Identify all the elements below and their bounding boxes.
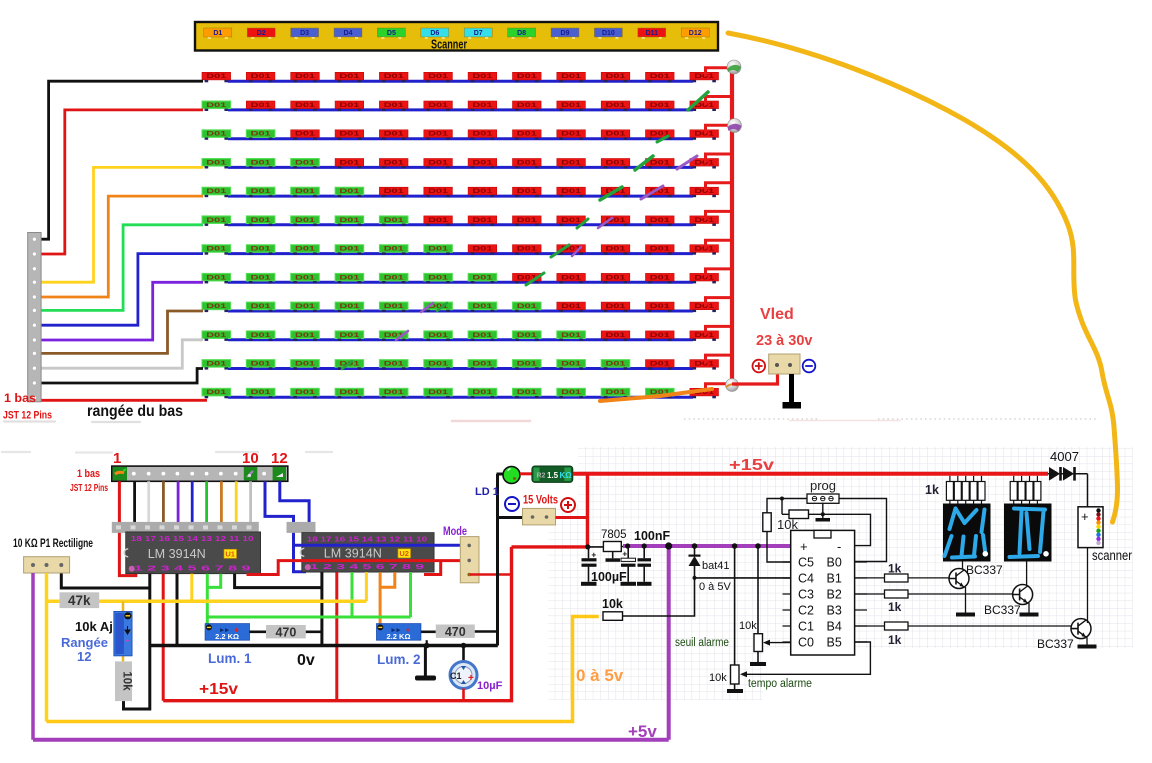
- resistor 470 (2): [436, 625, 475, 638]
- svg-text:10k: 10k: [739, 620, 757, 632]
- wire P1 pin1 +5v (purple): [31, 573, 35, 740]
- svg-text:D8: D8: [517, 30, 526, 37]
- svg-text:Vled: Vled: [760, 306, 794, 323]
- svg-text:1: 1: [113, 450, 121, 467]
- U2 socket strip: [287, 522, 316, 533]
- svg-text:D4: D4: [344, 30, 353, 37]
- resistor 10k (vertical): [115, 661, 132, 701]
- wire bat41 junction to C4: [695, 577, 791, 579]
- svg-text:D1: D1: [213, 30, 222, 37]
- scanner diode D11: [638, 28, 666, 39]
- wire row 9 blue rail: [228, 310, 693, 313]
- wire U1 pin2 to 0v: [148, 574, 151, 646]
- ground (Vled): [789, 374, 794, 402]
- wire U2 pin9 to Mode (red): [424, 561, 441, 575]
- potentiometer 10k Aj: [114, 612, 132, 656]
- wire U2 pin3 +15v: [335, 572, 338, 701]
- svg-text:100nF: 100nF: [634, 529, 670, 543]
- wire U1 pin8 to U2 pin2: [235, 574, 322, 588]
- svg-text:23 à 30v: 23 à 30v: [756, 333, 812, 349]
- wire row 2 from JST pin 2: [41, 110, 203, 254]
- svg-text:R2: R2: [537, 473, 546, 480]
- svg-text:D3: D3: [300, 30, 309, 37]
- LED row 9 (D901-D912): [202, 302, 719, 312]
- LED row 1 (D101-D112): [202, 72, 719, 82]
- svg-text:C2: C2: [798, 604, 814, 618]
- wire JST pin12 to U2 pin18 (blue): [280, 481, 309, 529]
- JST 12 pin connector (matrix left): [28, 233, 41, 402]
- stray wire marks on matrix: [342, 92, 708, 369]
- wire 10uF to 0v: [462, 646, 465, 662]
- wire row 4 blue rail: [228, 166, 693, 169]
- svg-text:Mode: Mode: [443, 524, 467, 538]
- wires JST to U1 socket: [135, 481, 251, 522]
- JST 12 pin connector (bottom circuit): [112, 466, 288, 481]
- op-amp U2 (LM3914N): [300, 533, 434, 573]
- capacitor C1 10uF: [450, 662, 477, 689]
- wire U1 pin6-7 ref (green): [207, 574, 220, 624]
- svg-text:18 17 16 15 14 13 12 11 10: 18 17 16 15 14 13 12 11 10: [307, 535, 427, 544]
- svg-text:BC337: BC337: [1037, 637, 1074, 651]
- svg-text:1 2 3 4 5 6 7 8 9: 1 2 3 4 5 6 7 8 9: [134, 564, 251, 573]
- LED row 5 (D501-D512): [202, 187, 719, 197]
- svg-text:10 KΩ P1 Rectiligne: 10 KΩ P1 Rectiligne: [13, 538, 93, 550]
- wire Q2 emitter + ground: [1028, 603, 1030, 613]
- LED row 8 (D801-D812): [202, 273, 719, 283]
- wire U2 pin8 (green): [409, 572, 412, 617]
- wire scanner link (yellow curve): [728, 33, 1118, 522]
- svg-text:+: +: [592, 551, 597, 560]
- wire U2 pin2 to 0v: [320, 572, 323, 645]
- resistor 10k (0-5v): [603, 612, 623, 621]
- svg-text:C1: C1: [798, 620, 814, 634]
- svg-text:C0: C0: [798, 636, 814, 650]
- svg-text:D6: D6: [430, 30, 439, 37]
- wire row 12 to Vled bus: [706, 384, 733, 393]
- svg-text:7805: 7805: [601, 529, 627, 541]
- svg-text:1 bas: 1 bas: [4, 391, 36, 405]
- IC microcontroller: [783, 530, 868, 655]
- svg-text:D2: D2: [257, 30, 266, 37]
- svg-text:prog: prog: [810, 478, 836, 493]
- wire row 6 to Vled bus: [706, 211, 733, 220]
- scanner diode D2: [247, 28, 275, 39]
- svg-text:D10: D10: [602, 30, 615, 37]
- svg-text:2.2 KΩ: 2.2 KΩ: [387, 632, 411, 641]
- wire 10uF to +15v: [462, 689, 465, 701]
- LED LD1: [503, 467, 520, 484]
- svg-text:D7: D7: [474, 30, 483, 37]
- wire 0 a 5v (yellow): [47, 617, 599, 722]
- resistor network 1k (display 2): [1010, 476, 1041, 504]
- wire LD1 to R2: [520, 472, 532, 475]
- 7-segment display 2: [1004, 504, 1052, 562]
- wire 10k pullup to C5: [767, 532, 791, 563]
- Vled bus wire: [730, 64, 734, 384]
- wire row 12 from JST pin 12: [41, 399, 207, 402]
- svg-text:JST 12 Pins: JST 12 Pins: [70, 482, 108, 494]
- minus terminal symbol: [803, 360, 816, 373]
- 7-segment display 1: [943, 504, 991, 562]
- LED row 10 (D1001-D1012): [202, 331, 719, 341]
- svg-text:+: +: [1081, 509, 1089, 524]
- svg-text:B5: B5: [827, 636, 842, 650]
- svg-text:D9: D9: [561, 30, 570, 37]
- wire U1 pin5 signal (yellow): [190, 574, 193, 602]
- svg-text:1k: 1k: [888, 633, 902, 647]
- orange stray wire row 12: [600, 389, 712, 401]
- resistor 1k (B1): [855, 577, 950, 579]
- connector 15 Volts: [523, 508, 556, 525]
- wire Mode pin3 to +15v: [470, 573, 512, 576]
- wire row 8 to Vled bus: [706, 269, 733, 278]
- svg-text:U1: U1: [225, 550, 235, 559]
- ground (prog): [822, 503, 824, 518]
- svg-text:B3: B3: [827, 604, 842, 618]
- svg-text:+15v: +15v: [199, 681, 238, 698]
- wire +15v bottom rail: [163, 547, 511, 701]
- connector prog: [807, 494, 839, 503]
- svg-text:U2: U2: [399, 549, 409, 558]
- svg-text:C3: C3: [798, 588, 814, 602]
- svg-text:B4: B4: [827, 620, 842, 634]
- wire +5v drop and rail (purple): [33, 546, 669, 740]
- op-amp U1 (LM3914N): [124, 532, 260, 574]
- svg-text:1 bas: 1 bas: [77, 468, 100, 480]
- wire P1 pin2 wiper (yellow): [45, 573, 49, 722]
- LED row 7 (D701-D712): [202, 245, 719, 255]
- wire prog right to B0: [839, 499, 887, 562]
- transistor Q2 BC337: [1013, 585, 1033, 605]
- scanner diode D8: [508, 28, 536, 39]
- wire row 2 blue rail: [228, 108, 693, 111]
- scanner diode D4: [334, 28, 362, 39]
- connector P1: [24, 557, 70, 573]
- wire U2 pin6-7 (orange): [380, 572, 395, 624]
- svg-text:0v: 0v: [297, 652, 315, 669]
- svg-text:+: +: [468, 673, 474, 684]
- wire Q1 collector: [962, 554, 964, 570]
- svg-text:LM 3914N: LM 3914N: [324, 545, 382, 560]
- svg-text:+5v: +5v: [628, 722, 657, 741]
- wire plus to +15v vertical: [556, 516, 589, 519]
- svg-text:D11: D11: [646, 30, 659, 37]
- wire 10k to bat41/C4: [623, 578, 695, 616]
- svg-text:1k: 1k: [888, 562, 902, 576]
- junction ball row 1: [727, 60, 741, 74]
- svg-text:10µF: 10µF: [477, 680, 503, 692]
- resistor 1k (B2): [855, 593, 1013, 595]
- wire row 7 to Vled bus: [706, 240, 733, 249]
- LED row 6 (D601-D612): [202, 216, 719, 226]
- svg-text:15 Volts: 15 Volts: [523, 493, 558, 507]
- wire row 11 blue rail: [228, 367, 693, 370]
- wire U1 pin9 to Mode (red): [247, 561, 461, 575]
- svg-text:Lum. 2: Lum. 2: [377, 652, 421, 667]
- svg-text:B2: B2: [827, 588, 842, 602]
- resistor 10k pullup (vertical): [763, 513, 771, 532]
- svg-text:10k: 10k: [121, 671, 133, 691]
- potentiometer 10k seuil: [754, 634, 763, 652]
- svg-text:0 à 5v: 0 à 5v: [576, 666, 624, 685]
- connector Mode: [460, 537, 479, 583]
- resistor R2 1.5K: [532, 466, 573, 482]
- svg-text:+: +: [623, 550, 628, 559]
- wire row 8 blue rail: [228, 281, 693, 284]
- LED row 11 (D1101-D1112): [202, 360, 719, 370]
- wire seuil pot from +5v: [757, 546, 759, 634]
- grid paper background: [548, 447, 1133, 700]
- svg-text:scanner: scanner: [1092, 548, 1132, 563]
- plus symbol (15V): [561, 498, 575, 512]
- svg-text:+: +: [125, 636, 130, 645]
- svg-text:D12: D12: [689, 30, 702, 37]
- capacitor 100nF: [637, 546, 652, 586]
- wire 2.2K-1 to 470-1: [250, 630, 267, 633]
- wire row 6 from JST pin 6: [41, 225, 203, 311]
- wire 2.2K-2 wiper to 0v: [426, 640, 428, 645]
- potentiometer 10k tempo: [731, 665, 740, 684]
- resistor 47k: [60, 592, 100, 608]
- wire 470-1 to U2 pin2 line: [306, 630, 322, 633]
- LED row 12 (D1201-D1212): [202, 388, 719, 398]
- capacitor 100uF output: [621, 546, 637, 586]
- svg-text:10k Aj: 10k Aj: [75, 619, 113, 634]
- svg-text:B0: B0: [827, 556, 842, 570]
- svg-text:C4: C4: [798, 572, 814, 586]
- U1 socket strip: [112, 522, 259, 533]
- wire U2 pin4 (green): [351, 572, 354, 617]
- wire row 11 to Vled bus: [706, 355, 733, 364]
- svg-text:2.2 KΩ: 2.2 KΩ: [215, 632, 239, 641]
- potentiometer 2.2K (Lum.2): [377, 624, 421, 641]
- wire row 10 to Vled bus: [706, 326, 733, 335]
- wire Q3 collector from scanner: [1087, 548, 1089, 623]
- scanner diode D3: [291, 28, 319, 39]
- wire row 3 to Vled bus: [706, 125, 733, 134]
- wire 10k bottom to 0v: [124, 646, 150, 710]
- svg-text:KΩ: KΩ: [560, 471, 573, 480]
- wire row 6 blue rail: [228, 223, 693, 226]
- plus terminal symbol: [753, 360, 766, 373]
- wire +15v vertical drop: [586, 474, 589, 547]
- wire row 9 to Vled bus: [706, 298, 733, 307]
- wire +15v to bottom rail: [512, 545, 588, 548]
- connector scanner: [1078, 507, 1103, 548]
- ground (0v bus): [424, 646, 427, 676]
- wire prog left net: [767, 499, 807, 515]
- wire JST pin11 to U2 pin1 (blue): [265, 481, 306, 572]
- svg-text:100µF: 100µF: [591, 570, 627, 584]
- transistor Q1 BC337: [949, 569, 969, 589]
- wire U1 pin4 to 0v: [176, 574, 179, 646]
- wire U1 pin2 to P1 pin3: [61, 573, 150, 588]
- wire row 5 from JST pin 5: [41, 196, 203, 297]
- svg-text:1k: 1k: [925, 483, 939, 497]
- faint smudge marks: [2, 421, 900, 453]
- diode bat41: [689, 546, 701, 578]
- svg-text:10k: 10k: [602, 597, 623, 611]
- svg-text:Lum. 1: Lum. 1: [208, 651, 252, 666]
- svg-text:C1: C1: [450, 671, 462, 681]
- wire row 9 from JST pin 9: [41, 311, 203, 353]
- wire green bus pins6-8: [207, 616, 410, 619]
- svg-text:12: 12: [77, 649, 91, 664]
- svg-text:1k: 1k: [888, 600, 902, 614]
- wire minus to connector: [498, 516, 523, 519]
- svg-text:rangée du bas: rangée du bas: [87, 403, 183, 420]
- wire row 1 from JST pin 1: [41, 81, 203, 239]
- wire +5v main (purple): [623, 544, 791, 548]
- wire +15v top rail: [573, 472, 1048, 476]
- wire Vled connector to bus: [732, 374, 778, 384]
- junction ball row 3: [728, 119, 742, 133]
- wire C0 to seuil wiper (arrow): [765, 642, 791, 644]
- resistor 10k (horizontal, prog): [789, 510, 809, 519]
- wire row 3 blue rail: [228, 137, 693, 140]
- scanner diode D10: [594, 28, 622, 39]
- svg-text:1.5: 1.5: [547, 471, 559, 480]
- resistor 470 (1): [266, 625, 306, 638]
- svg-text:470: 470: [445, 625, 466, 639]
- svg-text:10k: 10k: [709, 672, 727, 684]
- svg-text:470: 470: [275, 625, 296, 639]
- svg-text:1 2 3 4 5 6 7 8 9: 1 2 3 4 5 6 7 8 9: [310, 562, 424, 571]
- svg-text:tempo alarme: tempo alarme: [748, 678, 812, 690]
- wire 470-2 to LD1 line: [475, 630, 498, 633]
- svg-text:18 17 16 15 14 13 12 11 10: 18 17 16 15 14 13 12 11 10: [131, 534, 254, 543]
- resistor network 1k (display 1): [946, 476, 985, 504]
- potentiometer 2.2K (Lum.1): [205, 624, 249, 641]
- LED row 2 (D201-D212): [202, 101, 719, 111]
- wire JST pin1 to U1 pin1 (red): [119, 481, 135, 575]
- transistor Q3 BC337: [1071, 619, 1091, 639]
- svg-text:bat41: bat41: [702, 560, 730, 572]
- wire row 4 to Vled bus: [706, 154, 733, 163]
- LED row 3 (D301-D312): [202, 130, 719, 140]
- wire row 7 from JST pin 7: [41, 254, 203, 326]
- svg-text:JST 12 Pins: JST 12 Pins: [3, 410, 52, 422]
- wire row 10 from JST pin 10: [41, 340, 203, 368]
- wire 2.2K-2 to 470-2: [421, 630, 436, 633]
- wire row 5 blue rail: [228, 195, 693, 198]
- wire row 12 blue rail: [228, 396, 693, 399]
- wire B5 to tempo wiper: [743, 642, 870, 674]
- svg-text:Rangée: Rangée: [61, 635, 108, 650]
- svg-text:12: 12: [271, 450, 288, 467]
- wire tempo pot from +5v: [734, 546, 736, 665]
- scanner diode D5: [377, 28, 405, 39]
- scanner diode D1: [204, 28, 232, 39]
- svg-text:C5: C5: [798, 556, 814, 570]
- capacitor 100uF input: [581, 547, 597, 586]
- svg-text:Scanner: Scanner: [431, 38, 467, 52]
- Vled connector: [769, 354, 800, 374]
- svg-text:47k: 47k: [68, 593, 91, 608]
- dotted separator line: [684, 418, 1098, 420]
- scanner diode D12: [681, 28, 709, 39]
- diodes 4007: [1048, 467, 1088, 507]
- svg-text:B1: B1: [827, 572, 842, 586]
- wire row 5 to Vled bus: [706, 183, 733, 192]
- wire U2 pin5 signal (yellow): [365, 572, 368, 601]
- wire 47k line (yellow): [47, 600, 367, 604]
- junction ball bottom: [726, 379, 739, 392]
- svg-text:seuil alarme: seuil alarme: [675, 637, 729, 649]
- svg-text:+15v: +15v: [729, 457, 774, 474]
- wire Q3 emitter + ground: [1086, 637, 1088, 645]
- wire U1 pin3 +15v: [162, 574, 165, 701]
- wire row 11 from JST pin 11: [41, 369, 203, 384]
- scanner diode D7: [464, 28, 492, 39]
- svg-text:0 à 5V: 0 à 5V: [699, 581, 731, 593]
- wire blue over U2 to Mode pin1: [294, 544, 461, 547]
- wire row 1 to Vled bus: [706, 68, 733, 77]
- svg-text:LD 1: LD 1: [475, 486, 499, 498]
- wire row 8 from JST pin 8: [41, 282, 203, 340]
- wire row 7 blue rail: [228, 252, 693, 255]
- scanner bar housing: [195, 22, 718, 51]
- svg-text:D5: D5: [387, 30, 396, 37]
- svg-text:BC337: BC337: [966, 563, 1003, 577]
- wire LD1 left: [497, 473, 504, 476]
- svg-text:BC337: BC337: [984, 603, 1021, 617]
- scanner diode D9: [551, 28, 579, 39]
- svg-text:10: 10: [242, 450, 259, 467]
- wire Q1 emitter + ground: [965, 587, 967, 613]
- svg-text:-: -: [837, 539, 841, 554]
- scanner diode D6: [421, 28, 449, 39]
- wire Q2 collector: [1026, 554, 1028, 586]
- minus symbol (15V): [505, 497, 519, 511]
- wire row 2 to Vled bus: [706, 97, 733, 106]
- LED row 4 (D401-D412): [202, 159, 719, 169]
- wire row 4 from JST pin 4: [41, 167, 203, 282]
- svg-text:+: +: [800, 539, 808, 554]
- svg-text:4007: 4007: [1050, 449, 1079, 464]
- svg-text:LM 3914N: LM 3914N: [148, 546, 206, 561]
- regulator 7805: [588, 546, 627, 548]
- wire 0v bus: [150, 644, 498, 647]
- wire 10kAj top (yellow): [122, 601, 125, 661]
- wire LD1/0v vertical: [496, 474, 499, 646]
- resistor 1k (B4): [855, 625, 1072, 627]
- wire row 10 blue rail: [228, 338, 693, 341]
- wire row 1 blue rail: [228, 80, 693, 83]
